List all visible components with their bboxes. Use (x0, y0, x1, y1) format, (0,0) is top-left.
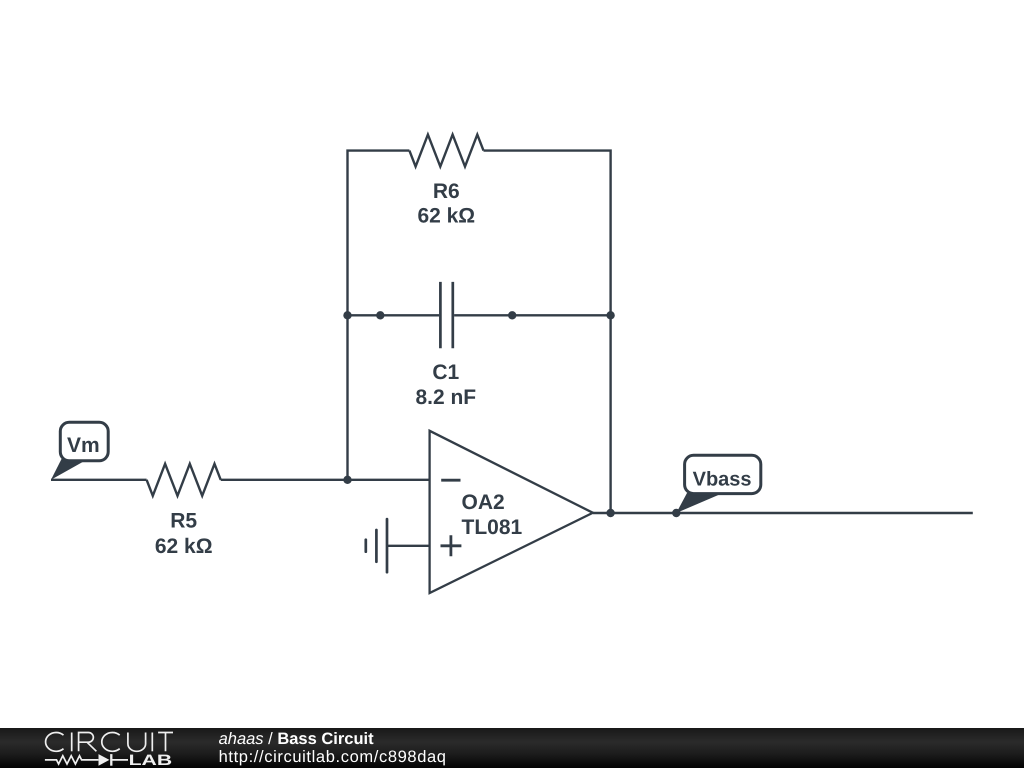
I (151, 733, 153, 752)
wire: capacitor left lead (348, 314, 440, 316)
diode (99, 754, 129, 766)
wire: R5 to op-amp inverting input (221, 479, 430, 481)
ground (non-inverting input reference) (366, 519, 387, 572)
wire: Vm to R5 (51, 479, 147, 481)
svg-text:C1: C1 (432, 361, 459, 384)
svg-text:TL081: TL081 (462, 516, 523, 539)
wire: capacitor right lead (454, 314, 610, 316)
svg-text:8.2 nF: 8.2 nF (415, 386, 476, 409)
footer bar (0, 728, 1024, 768)
svg-text:62 kΩ: 62 kΩ (417, 205, 475, 228)
R (79, 733, 97, 752)
flag Vbass (676, 455, 761, 513)
svg-text:LAB: LAB (129, 752, 173, 768)
footer text (219, 730, 447, 767)
node: cap wire at left rail (343, 311, 351, 319)
wire: op-amp output to right edge (593, 512, 973, 514)
flag Vm (51, 422, 108, 480)
node: junction at inverting input (343, 476, 351, 484)
T (158, 733, 173, 752)
svg-text:OA2: OA2 (462, 491, 505, 514)
node: cap left terminal (376, 311, 384, 319)
wire: top wire right segment and right rail down to output (484, 151, 611, 513)
CircuitLab logo (0, 723, 200, 768)
resistor R6 (409, 135, 483, 228)
wire: left rail up to top wire (348, 151, 410, 480)
wire: ground to non-inverting input (387, 545, 430, 547)
U (128, 733, 146, 752)
C (102, 733, 120, 752)
svg-text:R6: R6 (433, 180, 460, 203)
svg-text:Vm: Vm (67, 434, 100, 457)
op-amp OA2 (430, 431, 593, 593)
node: Vbass tap (672, 509, 680, 517)
svg-text:62 kΩ: 62 kΩ (155, 535, 213, 558)
resistor R5 (147, 464, 221, 558)
node: output at right rail (606, 509, 614, 517)
C (46, 733, 64, 752)
svg-text:Vbass: Vbass (693, 468, 752, 490)
resistor squiggle (45, 756, 99, 764)
node: cap wire at right rail (606, 311, 614, 319)
svg-text:R5: R5 (170, 510, 197, 533)
I (71, 733, 73, 752)
capacitor C1 (415, 282, 476, 409)
node: cap right terminal (508, 311, 516, 319)
